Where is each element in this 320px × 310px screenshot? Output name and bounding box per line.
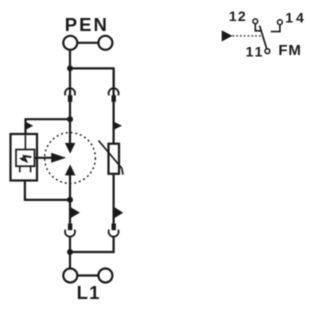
- flag marker top left: [26, 122, 33, 130]
- node left branch to arrester box: [67, 116, 73, 122]
- contact terminal 11: [265, 49, 270, 54]
- node top junction: [67, 65, 73, 71]
- wire left branch below spark gap: [69, 175, 71, 224]
- wire left branch upper: [69, 68, 71, 95]
- wire right branch to bottom node: [70, 236, 114, 252]
- wire arrester box bottom: [25, 181, 70, 200]
- wire varistor to bottom: [112, 174, 114, 224]
- lightning bolt arrowhead: [19, 157, 24, 162]
- contact terminal 12: [253, 19, 258, 24]
- svg-text:FM: FM: [278, 42, 301, 59]
- wire right branch upper: [112, 68, 114, 95]
- surge arrow head: [51, 153, 66, 163]
- surge arrow shaft to spark gap: [35, 157, 54, 159]
- thermal disconnect right top (break bar): [112, 95, 116, 102]
- thermal disconnect right bottom (break bar): [112, 224, 116, 231]
- flag marker right top: [114, 122, 122, 130]
- flag marker bottom left: [70, 207, 80, 218]
- flag marker right bottom: [114, 207, 123, 219]
- thermal disconnect left bottom (break bar): [68, 224, 72, 231]
- wire contact 14: [271, 25, 280, 32]
- wire right branch to varistor: [112, 102, 114, 144]
- node arrester box return: [67, 197, 73, 203]
- terminal L1 left: [63, 269, 77, 283]
- wire left branch to bottom node: [69, 236, 71, 269]
- svg-text:PEN: PEN: [65, 14, 109, 35]
- svg-text:12: 12: [229, 8, 247, 24]
- node bottom junction: [67, 249, 73, 255]
- wire PEN terminals link: [77, 42, 98, 44]
- contact terminal 14: [278, 20, 283, 25]
- thermal disconnect left bottom (arc): [65, 230, 75, 237]
- wire inner box top pin: [24, 134, 26, 150]
- lightning bolt in plug: [22, 156, 32, 161]
- spark gap lower electrode (up arrow): [65, 164, 76, 175]
- arrester module outer box: [11, 134, 38, 181]
- varistor diagonal: [99, 141, 124, 175]
- svg-text:14: 14: [285, 9, 307, 25]
- wire left branch below disconnect: [69, 102, 71, 144]
- terminal PEN right: [98, 36, 112, 50]
- wire top node to right branch: [70, 68, 114, 88]
- spark gap dashed circle: [45, 133, 96, 184]
- spark gap upper electrode (down arrow): [65, 143, 76, 154]
- wire L1 terminals link: [77, 274, 98, 276]
- varistor body: [109, 144, 120, 174]
- terminal PEN left: [63, 36, 77, 50]
- thermal disconnect right bottom (arc): [109, 230, 119, 237]
- terminal L1 right: [98, 269, 112, 283]
- thermal disconnect left top (break bar): [68, 95, 72, 102]
- inner box leg right: [30, 166, 32, 172]
- inner box leg left: [19, 166, 21, 172]
- moving contact blade 11-12: [260, 26, 267, 49]
- arrester plug inner box: [16, 150, 35, 167]
- FM dashed actuation line: [232, 35, 262, 37]
- thermal disconnect left top (arc): [65, 88, 75, 95]
- wire contact 12: [255, 24, 261, 31]
- svg-text:L1: L1: [77, 282, 101, 303]
- FM remote contact: signal arrow: [222, 30, 233, 41]
- wire PEN down to top node: [69, 50, 71, 69]
- wire node to arrester box top: [26, 119, 71, 134]
- svg-text:11: 11: [246, 44, 265, 60]
- thermal disconnect right top (arc): [109, 88, 119, 95]
